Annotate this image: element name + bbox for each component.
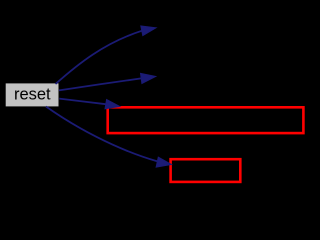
arrowhead edge 4: [156, 157, 172, 167]
wire edge 2 (reset to mid-right callee): [59, 78, 141, 90]
wire edge 3 (reset to wide truncated node): [59, 99, 106, 105]
node wide truncated callee (red box): [108, 107, 304, 133]
arrowhead edge 1: [141, 26, 157, 36]
svg-text:reset: reset: [14, 85, 51, 103]
wire edge 1 (reset to top-right callee): [56, 31, 142, 84]
arrowhead edge 3: [105, 99, 120, 109]
node small truncated callee (red box): [171, 159, 241, 182]
arrowhead edge 2: [140, 73, 156, 83]
wire edge 4 (reset to small truncated node): [46, 107, 157, 162]
node reset (gray box): [6, 83, 59, 106]
